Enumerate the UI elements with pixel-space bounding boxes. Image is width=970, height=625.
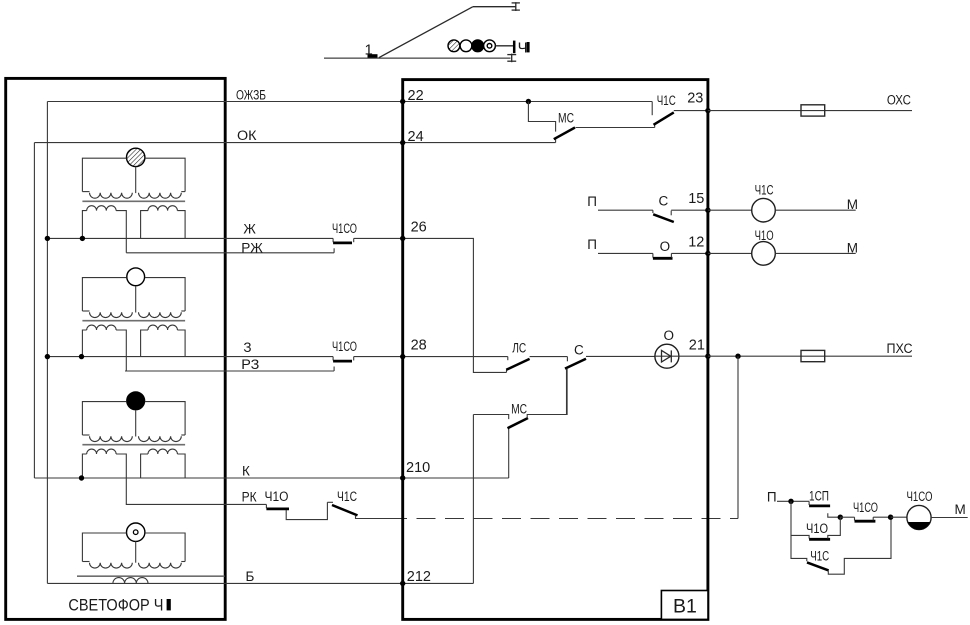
wire OKhS	[708, 110, 912, 112]
wire relay to M bottom	[931, 517, 968, 519]
terminal 212	[400, 581, 405, 586]
contact LS blade (fed from 26)	[506, 359, 529, 373]
svg-text:П: П	[587, 194, 597, 209]
fuse OKhS	[801, 105, 825, 116]
transformer T3 (red) secondary right	[141, 449, 186, 478]
junction B before relay	[888, 515, 893, 520]
wire to terminal 12	[671, 252, 708, 254]
svg-text:Ч1СО: Ч1СО	[332, 339, 357, 354]
wire 15 to relay Ch1S	[708, 209, 752, 211]
svg-text:Ч1СО: Ч1СО	[332, 221, 357, 236]
relay Ch1S coil	[752, 198, 776, 222]
svg-text:В1: В1	[673, 595, 697, 617]
svg-text:ОЖЗБ: ОЖЗБ	[236, 87, 266, 102]
svg-text:1: 1	[365, 42, 373, 59]
transformer T1 (yellow) secondary left	[82, 206, 126, 253]
junction K transformer	[79, 475, 84, 480]
transformer T2 (green) core	[82, 320, 185, 322]
svg-text:МС: МС	[558, 110, 574, 125]
svg-text:О: О	[660, 239, 671, 254]
wire to terminal 15	[671, 209, 708, 211]
wire 12 to relay Ch1O	[708, 252, 752, 254]
wire Ch1O to M	[775, 252, 855, 254]
contact Ch1SO (closed bar)	[840, 517, 890, 521]
svg-text:М: М	[847, 197, 858, 212]
svg-text:РЗ: РЗ	[241, 357, 259, 372]
transformer T2 (green) secondary right	[141, 325, 186, 357]
svg-text:Ч1О: Ч1О	[755, 228, 774, 243]
contact LS (fixed tick from wire 28)	[507, 357, 509, 361]
wire K riser to MS blade	[508, 428, 510, 479]
svg-text:Ч1О: Ч1О	[806, 521, 828, 536]
wire Z row	[47, 356, 333, 358]
wire OK-K left vertical bus	[33, 143, 35, 478]
transformer T3 (red) secondary left	[82, 449, 126, 504]
wire to terminal 23	[674, 110, 708, 112]
terminal 210	[400, 475, 405, 480]
junction A before Ch1SO contact	[838, 515, 843, 520]
svg-text:М: М	[955, 502, 966, 517]
wire OZhZB row	[47, 101, 652, 103]
wire Z to terminal 28 and LS contact	[354, 356, 508, 358]
svg-text:М: М	[847, 240, 858, 255]
wire P row12	[598, 252, 653, 254]
wire PKhS	[708, 355, 912, 357]
svg-text:П: П	[767, 490, 777, 505]
terminal 12	[705, 251, 710, 256]
wire Zh to terminal 26 and down	[354, 238, 507, 372]
svg-text:15: 15	[688, 191, 704, 207]
wire S to diode O	[586, 355, 655, 357]
wire OK row	[34, 142, 555, 144]
svg-text:ОХС: ОХС	[887, 92, 911, 107]
contact Ch1S bottom branch (break blade)	[791, 517, 891, 574]
wire P row15	[598, 209, 653, 211]
wire RZ row	[125, 367, 334, 372]
junction Zh bus	[45, 236, 50, 241]
svg-text:Ж: Ж	[243, 222, 256, 237]
lamp green (open circle)	[127, 268, 145, 286]
wire to relay Ch1SO	[891, 516, 907, 518]
junction Zh transformer	[80, 236, 85, 241]
svg-text:24: 24	[408, 129, 424, 145]
transformer T1 (yellow) primary	[82, 158, 185, 198]
svg-text:К: К	[242, 463, 250, 478]
svg-text:П: П	[587, 237, 597, 252]
svg-text:12: 12	[688, 234, 704, 250]
svg-text:Ч1О: Ч1О	[265, 489, 289, 504]
svg-text:Б: Б	[246, 569, 255, 584]
insulated joint on main track	[507, 54, 516, 63]
relay Ch1SO coil (half filled)	[907, 505, 931, 529]
svg-text:Ч1СО: Ч1СО	[907, 489, 933, 504]
svg-text:1СП: 1СП	[809, 488, 829, 503]
transformer T4 primary	[82, 533, 185, 568]
wire Ch1S to M	[775, 209, 855, 211]
svg-text:Ч: Ч	[518, 39, 528, 56]
insulated joint on siding	[512, 2, 520, 11]
svg-text:С: С	[659, 194, 669, 209]
turnout diagonal track	[379, 7, 473, 58]
junction Z transformer	[79, 354, 84, 359]
transformer T1 (yellow) core	[82, 200, 185, 202]
svg-text:РК: РК	[242, 489, 257, 504]
junction right of 21	[735, 354, 740, 359]
label box V1	[661, 591, 708, 620]
junction Z bus	[45, 354, 50, 359]
svg-text:21: 21	[689, 337, 705, 353]
svg-text:ЛС: ЛС	[512, 341, 526, 356]
wire OZhZB-B left vertical bus	[46, 102, 48, 584]
terminal 21	[705, 354, 710, 359]
wire RZh row	[126, 248, 334, 253]
svg-text:РЖ: РЖ	[241, 240, 263, 255]
contact MS lower blade (fed from K riser)	[508, 369, 568, 429]
label SVETOFOR I block	[167, 599, 171, 610]
wire P bottom	[777, 500, 809, 502]
transformer T3 (red) primary	[82, 402, 185, 442]
wire 1SP output stub to junction A	[828, 513, 841, 517]
transformer T2 (green) primary	[82, 278, 185, 318]
transformer T4 secondary coil on B wire	[113, 578, 148, 584]
junction on wire 22	[526, 99, 531, 104]
contact MS lower fixed (from B riser)	[473, 415, 508, 420]
contact Ch1SO on Zh (closed bar)	[333, 238, 354, 243]
cable box V1 outline	[403, 80, 708, 620]
contact Ch1O on RK (closed bar)	[266, 502, 327, 519]
signal mast	[513, 41, 516, 54]
wire B row	[47, 582, 473, 584]
contact S mid (fixed tick)	[566, 357, 568, 362]
svg-text:Ч1С: Ч1С	[337, 489, 357, 504]
svg-text:210: 210	[406, 460, 430, 476]
transformer T3 (red) core	[82, 444, 185, 446]
terminal 24	[400, 140, 405, 145]
contact S row15 (break blade)	[653, 210, 674, 222]
contact Ch1S on RK (break blade)	[327, 502, 396, 518]
junction P bottom	[788, 499, 793, 504]
svg-text:Ч1С: Ч1С	[657, 93, 676, 108]
wire K row	[34, 477, 508, 479]
terminal 23	[705, 108, 710, 113]
track plan: main track line	[324, 57, 511, 59]
signal head lens hatched	[448, 40, 460, 52]
relay Ch1O coil	[752, 242, 776, 266]
dashed wire from Ch1S to PKhS branch	[396, 518, 738, 520]
svg-text:Ч1С: Ч1С	[810, 548, 829, 563]
svg-text:Ч1С: Ч1С	[755, 182, 774, 197]
svg-text:З: З	[243, 340, 251, 355]
wire LS to S	[530, 356, 568, 358]
fuse PKhS	[801, 350, 825, 361]
contact S mid blade (fed from MS riser)	[565, 359, 586, 415]
wire Zh row	[47, 237, 333, 239]
svg-text:С: С	[574, 342, 584, 357]
transformer T1 (yellow) secondary right	[141, 206, 186, 239]
svetofor ChI enclosure box	[6, 78, 226, 619]
signal head lens white	[460, 40, 472, 52]
contact MS fixed feed from 22	[528, 102, 555, 132]
wire RK row	[126, 503, 267, 505]
wire diode to terminal 21	[679, 355, 708, 357]
lamp yellow (hatched)	[127, 148, 145, 166]
terminal 15	[705, 208, 710, 213]
wire 21 branch down to dashed line	[737, 356, 739, 518]
signal head lens black	[472, 40, 484, 52]
signal bracket wire	[495, 45, 513, 47]
svg-text:ПХС: ПХС	[887, 341, 913, 356]
svg-text:ОК: ОК	[237, 128, 257, 143]
contact Ch1O bottom branch (closed bar)	[791, 501, 840, 539]
svg-text:22: 22	[408, 88, 424, 104]
terminal 28	[400, 354, 405, 359]
diode O	[655, 344, 679, 368]
svg-text:МС: МС	[511, 401, 527, 416]
contact Ch1S blade top	[654, 112, 674, 127]
contact 1SP (bar)	[809, 501, 830, 506]
siding track line	[473, 6, 516, 8]
lamp white-moon (circle with dot)	[127, 523, 145, 541]
contact Ch1SO on Z (closed bar)	[333, 357, 354, 362]
wire MS output to Ch1S	[576, 127, 655, 129]
contact MS blade (from wire 24)	[554, 128, 575, 143]
terminal 26	[400, 236, 405, 241]
svg-text:212: 212	[407, 569, 431, 585]
contact O row12 (closed bar)	[653, 253, 673, 258]
lamp red (filled circle)	[127, 392, 145, 410]
signal name I block	[527, 42, 530, 52]
svg-text:Ч1СО: Ч1СО	[853, 500, 878, 515]
transformer T2 (green) secondary left	[82, 325, 126, 371]
svg-text:23: 23	[687, 91, 703, 107]
signal head lens ring	[484, 40, 496, 52]
contact Ch1S fixed from 22	[651, 102, 653, 116]
svg-text:28: 28	[411, 338, 427, 354]
svg-text:26: 26	[411, 219, 427, 235]
svg-text:СВЕТОФОР Ч: СВЕТОФОР Ч	[68, 596, 163, 614]
turnout 1 black wedge	[368, 54, 378, 58]
terminal 22	[400, 99, 405, 104]
svg-text:О: О	[664, 328, 675, 343]
transformer T4 core	[77, 575, 225, 577]
wire B riser to MS fixed feed	[472, 415, 474, 584]
